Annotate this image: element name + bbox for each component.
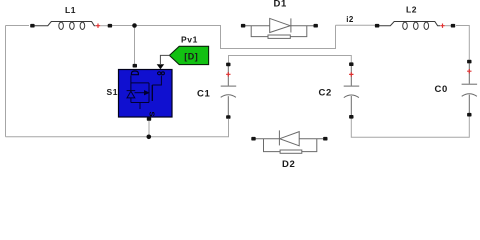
svg-text:Pv1: Pv1 [181, 35, 198, 45]
svg-text:D2: D2 [282, 159, 295, 170]
D2 right terminal [323, 137, 327, 141]
wire junction A to S1 top [134, 26, 136, 65]
capacitor C2 [344, 66, 360, 115]
mosfet icon [127, 76, 162, 110]
svg-text:[D]: [D] [184, 51, 198, 61]
port label g (top-right) [158, 72, 161, 75]
wire top rail left segment [6, 25, 30, 27]
L1 left terminal [30, 24, 34, 28]
svg-text:D1: D1 [274, 0, 287, 9]
C1 polarity plus [226, 72, 230, 76]
capacitor C0 [462, 64, 478, 114]
C0 bottom terminal [467, 113, 471, 117]
C1 top terminal [226, 63, 230, 67]
wire bottom-right rail C2 to C0 [351, 117, 469, 138]
svg-text:L1: L1 [65, 5, 76, 15]
C0 polarity plus [467, 69, 471, 73]
C0 top terminal [467, 60, 471, 64]
S1 top terminal [133, 64, 137, 68]
inductor L2 [379, 22, 452, 30]
gate arrowhead [157, 64, 165, 69]
diode D1 [245, 18, 314, 38]
C2 top terminal [349, 62, 353, 66]
D1 right terminal [314, 24, 318, 28]
port label D dome (top-left) [131, 71, 138, 75]
S1 bottom terminal [147, 117, 151, 121]
C1 bottom terminal [226, 115, 230, 119]
diode D2 [256, 130, 324, 153]
L2 right terminal [451, 24, 455, 28]
D1 left terminal [241, 24, 245, 28]
wire left vertical rail [5, 26, 7, 137]
node junction A dot [132, 23, 137, 28]
L1 right terminal [108, 24, 112, 28]
svg-text:S1: S1 [107, 87, 119, 97]
svg-text:S: S [148, 112, 157, 117]
L2 left terminal [375, 24, 379, 28]
wire C1 top to C2 top link [229, 56, 352, 64]
svg-text:C0: C0 [435, 84, 448, 95]
capacitor C1 [221, 66, 237, 116]
svg-text:C1: C1 [197, 89, 210, 100]
inductor L1 [34, 22, 109, 30]
svg-text:i2: i2 [346, 15, 354, 24]
wire Pv1 tag to gate [160, 55, 169, 64]
svg-text:C2: C2 [319, 87, 332, 98]
wire L1 to junction to jog corner [112, 25, 336, 48]
node junction B dot [147, 135, 152, 140]
wire i2 segment [336, 24, 376, 26]
C2 polarity plus [349, 72, 353, 76]
wire S1 bottom to bottom rail [148, 121, 150, 137]
wire L2 to C0 top [456, 26, 469, 60]
L1 polarity plus [96, 24, 100, 28]
L2 polarity plus [440, 24, 444, 28]
switch block S1 (MOSFET) [119, 70, 173, 118]
goto tag Pv1 [169, 46, 208, 64]
D2 left terminal [251, 137, 255, 141]
svg-text:L2: L2 [406, 4, 417, 14]
wire bottom-left rail [6, 119, 229, 137]
C2 bottom terminal [349, 115, 353, 119]
